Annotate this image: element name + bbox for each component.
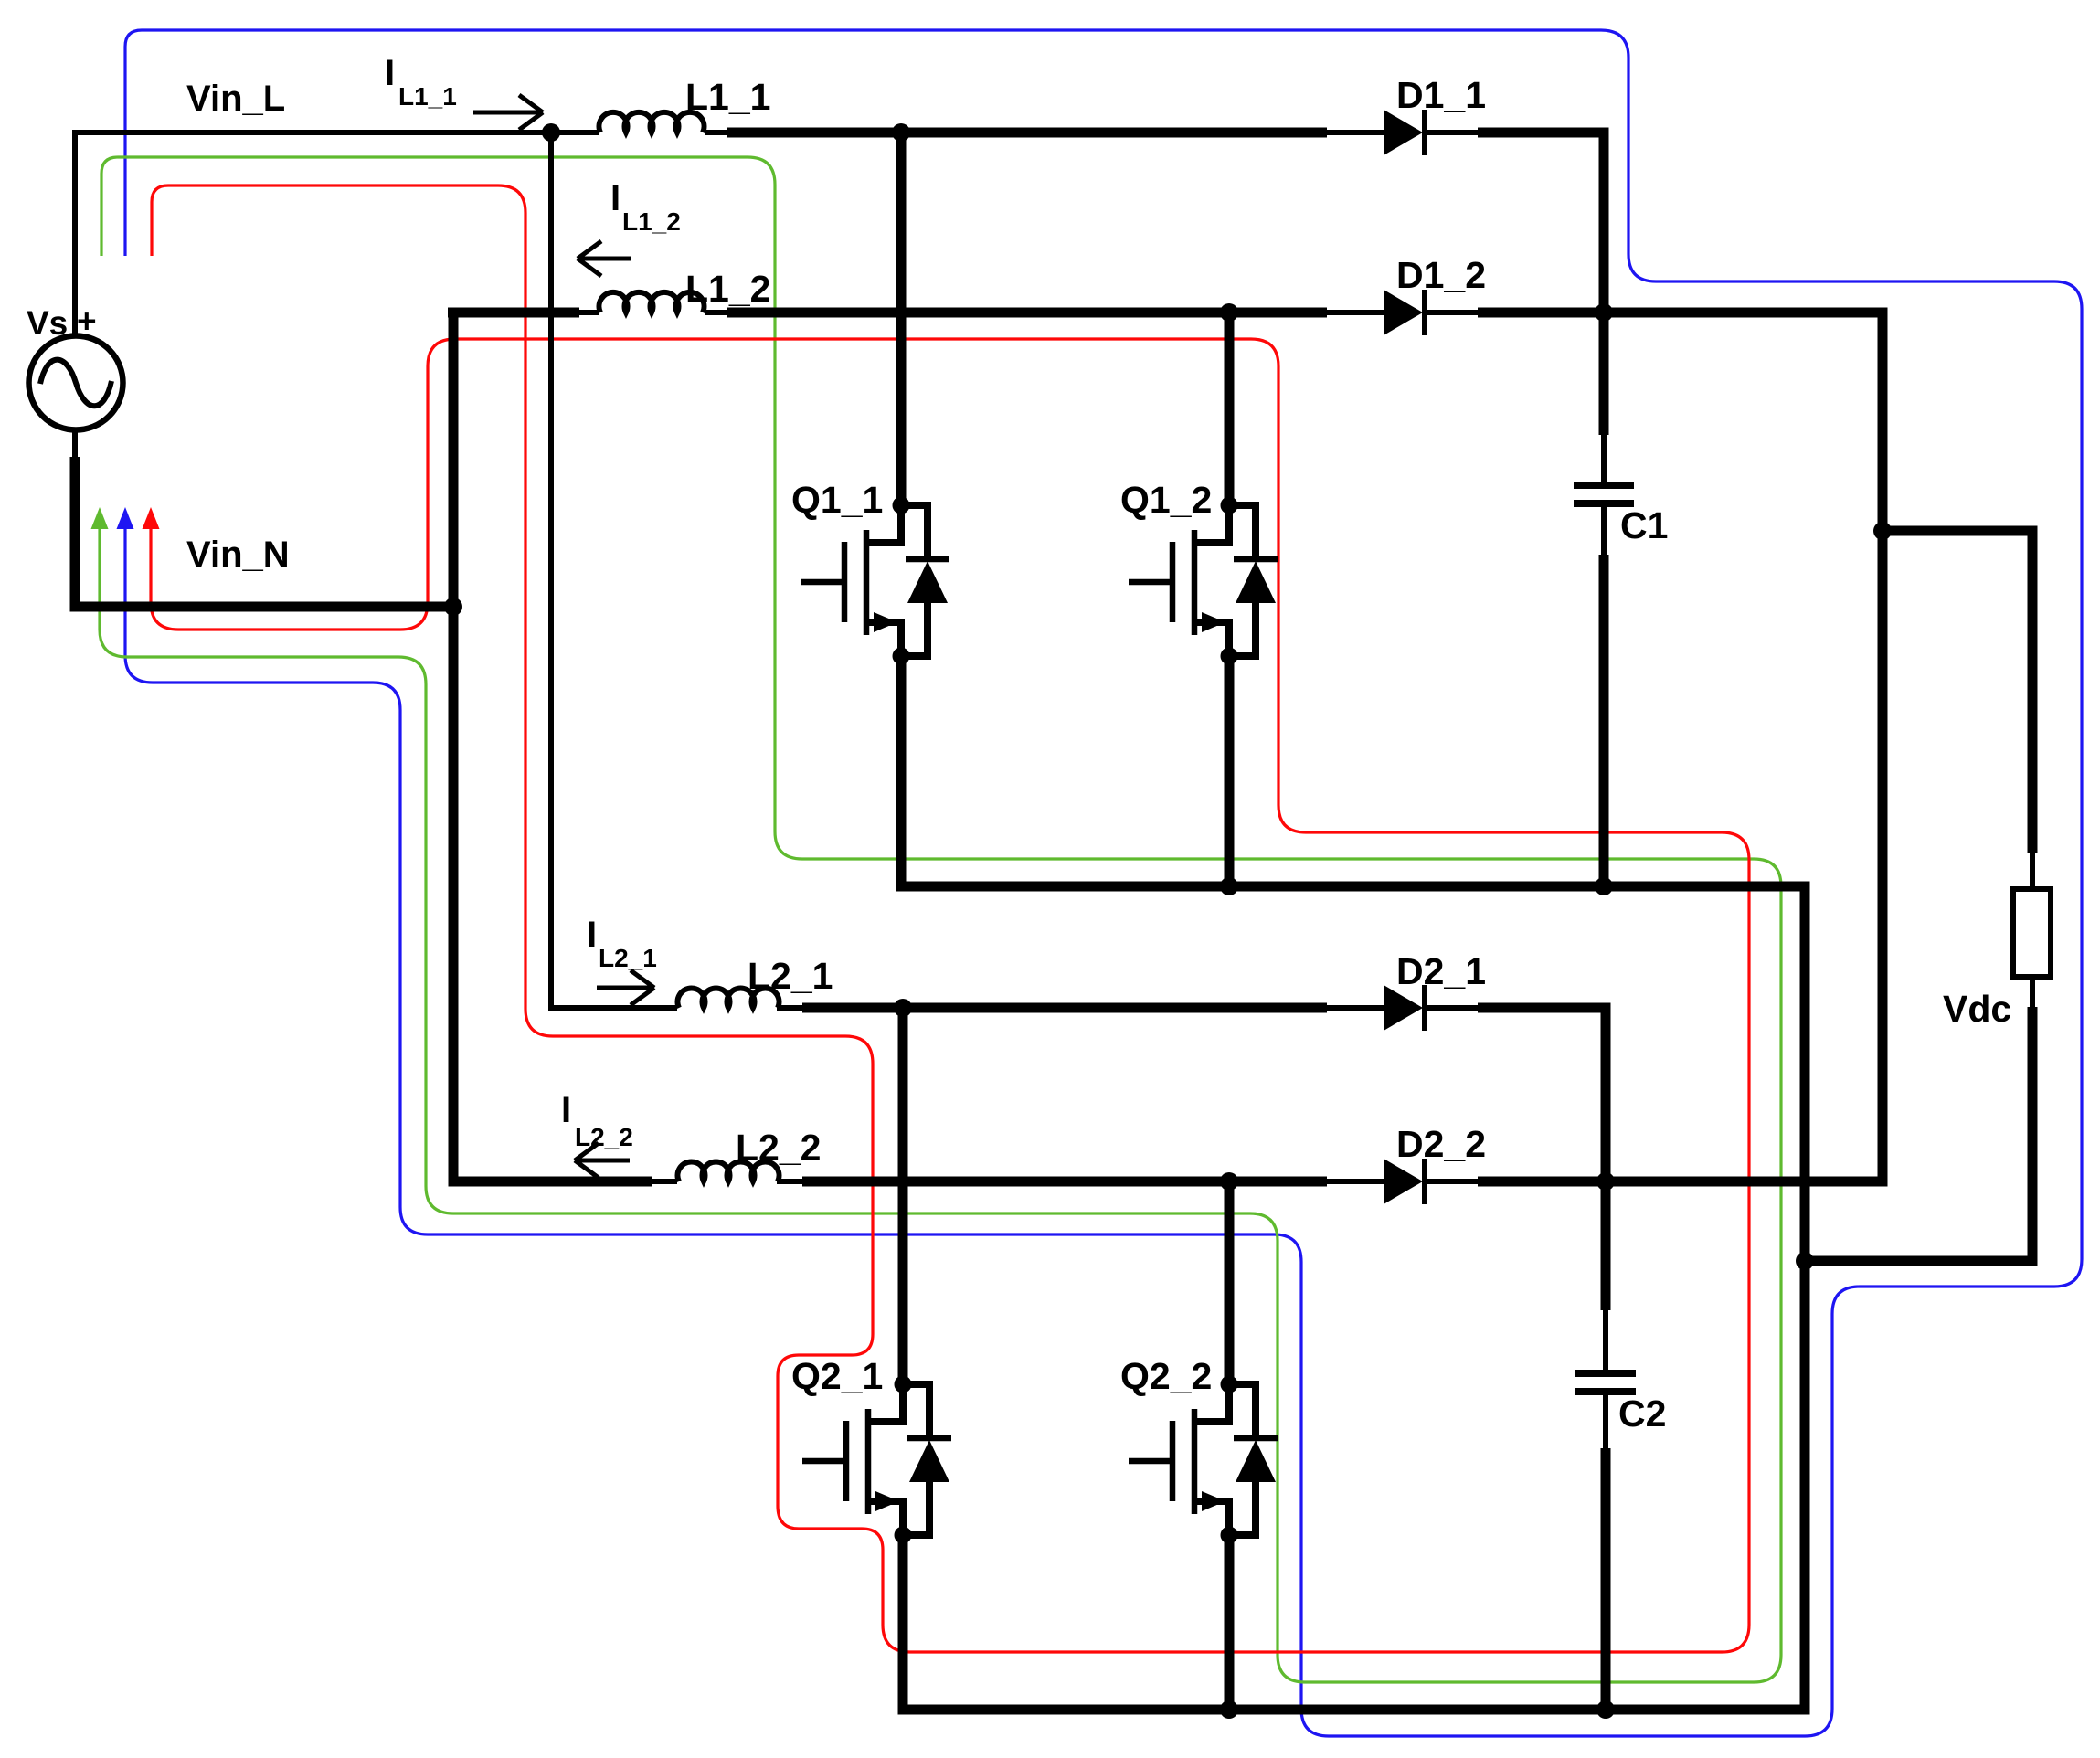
svg-text:I: I — [385, 53, 395, 93]
wire C2 bottom thick lead to bottom bus — [1601, 1448, 1611, 1710]
svg-text:+: + — [77, 302, 97, 340]
wire L1_2 left thin lead — [577, 310, 599, 315]
svg-text:L1_2: L1_2 — [685, 268, 770, 310]
svg-text:L1_1: L1_1 — [398, 82, 457, 111]
svg-text:L1_1: L1_1 — [685, 76, 770, 118]
wire L1_2 output to D1_2 anode — [727, 308, 1327, 318]
node C1 bottom / mid bus junction — [1595, 877, 1613, 895]
wire Vdc bottom lead and return to negative bus — [1805, 1007, 2032, 1261]
inductor L2_2 — [678, 1161, 780, 1181]
wire negative rail: Q1_1 source, mid bus, right drop, bottom bus, Q2_1 source — [901, 656, 1805, 1710]
wire D2_1 cathode thin lead — [1424, 1005, 1480, 1011]
wire L2_2 right thin lead — [777, 1179, 804, 1184]
wire C1 top thin lead — [1601, 432, 1607, 485]
wire D2_1 anode thin lead — [1323, 1005, 1385, 1011]
inductor L1_1 — [599, 112, 705, 132]
diode D2_2 — [1384, 1159, 1425, 1204]
wire D2_2 cathode thin lead — [1424, 1179, 1480, 1184]
svg-text:D1_2: D1_2 — [1396, 254, 1486, 296]
wire L1_2 input from neutral vertical — [448, 308, 579, 318]
svg-text:C2: C2 — [1618, 1393, 1666, 1435]
svg-text:C1: C1 — [1620, 504, 1668, 546]
svg-text:Vin_L: Vin_L — [186, 79, 285, 119]
wire D1_1 cathode thin lead — [1424, 130, 1480, 135]
svg-text:D2_1: D2_1 — [1396, 950, 1486, 992]
wire Vdc bottom thin lead — [2030, 977, 2035, 1011]
wire Vs top lead and Vin_L thin wire to L1_1 — [75, 132, 599, 336]
node red arrowhead near Vs — [143, 507, 160, 529]
wire L1_1 right thin lead — [705, 130, 731, 135]
resistor Vdc (load) — [2013, 889, 2051, 977]
wire Vs bottom lead and Vin_N — [75, 457, 453, 607]
svg-text:L2_1: L2_1 — [599, 944, 657, 972]
node top wire / L-branch junction — [542, 123, 560, 142]
wire D1_2 cathode thin lead — [1424, 310, 1480, 315]
node L2_1 row / Q2_1 drain junction — [894, 999, 912, 1017]
wire Q1_2 drain from L1_2 row — [1225, 312, 1235, 505]
svg-text:L2_2: L2_2 — [736, 1127, 821, 1169]
node C2 bottom / bottom bus junction — [1596, 1700, 1615, 1719]
svg-text:I: I — [610, 178, 620, 218]
diode D1_1 — [1384, 110, 1425, 155]
diode D2_1 — [1384, 985, 1425, 1031]
svg-text:I: I — [561, 1090, 571, 1130]
node D2 net / C2 top junction — [1596, 1172, 1615, 1191]
svg-text:Vs: Vs — [27, 304, 68, 342]
node green arrowhead near Vs — [91, 507, 109, 529]
wire D2_2 anode thin lead — [1323, 1179, 1385, 1184]
wire Q1_2 source to mid bus — [1225, 656, 1235, 886]
svg-text:D1_1: D1_1 — [1396, 74, 1486, 116]
wire D1 net branch to Vdc top — [1883, 531, 2032, 853]
wire L2_1 right thin lead — [777, 1005, 804, 1011]
node Vdc return junction — [1796, 1252, 1814, 1270]
wire D1_1 anode thin lead — [1323, 130, 1385, 135]
node I_L2_1 arrow — [597, 970, 654, 1005]
wire green loop path — [100, 157, 1781, 1682]
node D1 net branch junction — [1873, 522, 1892, 540]
svg-text:L2_2: L2_2 — [575, 1123, 633, 1151]
wire Q2_1 drain from L2_1 row — [898, 1008, 908, 1384]
wire Vs bottom thin lead — [72, 429, 78, 461]
svg-text:I: I — [587, 915, 597, 955]
wire Q1_1 drain from top wire — [896, 132, 907, 505]
transistor Q1_1 — [801, 497, 949, 665]
svg-text:Q2_2: Q2_2 — [1120, 1355, 1212, 1397]
wire neutral vertical from L1_2 row to L2_2 row — [453, 312, 652, 1181]
wire D1_1 cathode to top-right corner down to D1_2 row — [1478, 132, 1604, 312]
node L1_2 row / Q1_2 drain junction — [1220, 303, 1238, 322]
diode D1_2 — [1384, 290, 1425, 335]
inductor L1_2 — [599, 292, 705, 312]
node I_L1_1 arrow — [473, 95, 543, 130]
wire D2_2 cathode to junction and right to D-net vertical — [1478, 1177, 1888, 1187]
node Q1_2 source / mid bus junction — [1220, 877, 1238, 895]
node I_L2_2 arrow — [575, 1143, 630, 1178]
wire C1 top thick lead from D1 junction — [1599, 312, 1609, 435]
wire Vdc top thin lead — [2030, 848, 2035, 889]
svg-text:Vdc: Vdc — [1943, 988, 2011, 1030]
wire red loop path — [151, 185, 1749, 1652]
wire D1_2 anode thin lead — [1323, 310, 1385, 315]
source Vs (AC) — [29, 336, 123, 430]
node top wire / Q1_1 drain junction — [892, 123, 910, 142]
node I_L1_2 arrow — [578, 241, 631, 276]
capacitor C1 — [1574, 485, 1634, 503]
wire Q2_2 source to bottom bus — [1225, 1535, 1235, 1710]
svg-text:Q2_1: Q2_1 — [791, 1355, 883, 1397]
transistor Q1_2 — [1129, 497, 1278, 665]
svg-text:Q1_1: Q1_1 — [791, 479, 883, 521]
wire L2_1 output to D2_1 anode — [802, 1003, 1327, 1013]
node D1 net / C1 top junction — [1595, 303, 1613, 322]
node Q2_2 source / bottom bus junction — [1220, 1700, 1238, 1719]
wire D2_1 cathode corner down to D2_2 row — [1478, 1008, 1606, 1181]
capacitor C2 — [1575, 1373, 1636, 1392]
wire C2 top thick lead — [1601, 1181, 1611, 1310]
wire vertical from top junction down to L2_1 row — [551, 132, 677, 1008]
wire D1 net junction right to corner — [1604, 312, 1883, 1181]
svg-text:D2_2: D2_2 — [1396, 1123, 1486, 1165]
wire C2 top thin lead — [1603, 1308, 1608, 1373]
wire C1 bottom thin lead — [1601, 506, 1607, 557]
wire L2_2 left thin lead — [650, 1179, 677, 1184]
wire L2_2 output to D2_2 anode — [802, 1177, 1327, 1187]
wire L1_2 right thin lead — [705, 310, 731, 315]
wire C1 bottom thick lead to mid bus — [1599, 555, 1609, 886]
node L2_2 row / Q2_2 drain junction — [1220, 1172, 1238, 1191]
svg-text:L2_1: L2_1 — [748, 955, 833, 997]
node Vin_N / neutral vertical junction — [444, 598, 462, 616]
svg-text:Vin_N: Vin_N — [186, 535, 290, 575]
wire Q2_2 drain from L2_2 row — [1225, 1181, 1235, 1384]
transistor Q2_1 — [802, 1376, 951, 1544]
svg-text:Q1_2: Q1_2 — [1120, 479, 1212, 521]
node blue arrowhead near Vs — [117, 507, 134, 529]
wire C2 bottom thin lead — [1603, 1394, 1608, 1451]
wire L1_1 output to D1_1 anode — [727, 128, 1327, 138]
wire D1_2 cathode to junction — [1478, 308, 1604, 318]
svg-text:L1_2: L1_2 — [622, 207, 681, 236]
transistor Q2_2 — [1129, 1376, 1278, 1544]
inductor L2_1 — [678, 988, 780, 1008]
